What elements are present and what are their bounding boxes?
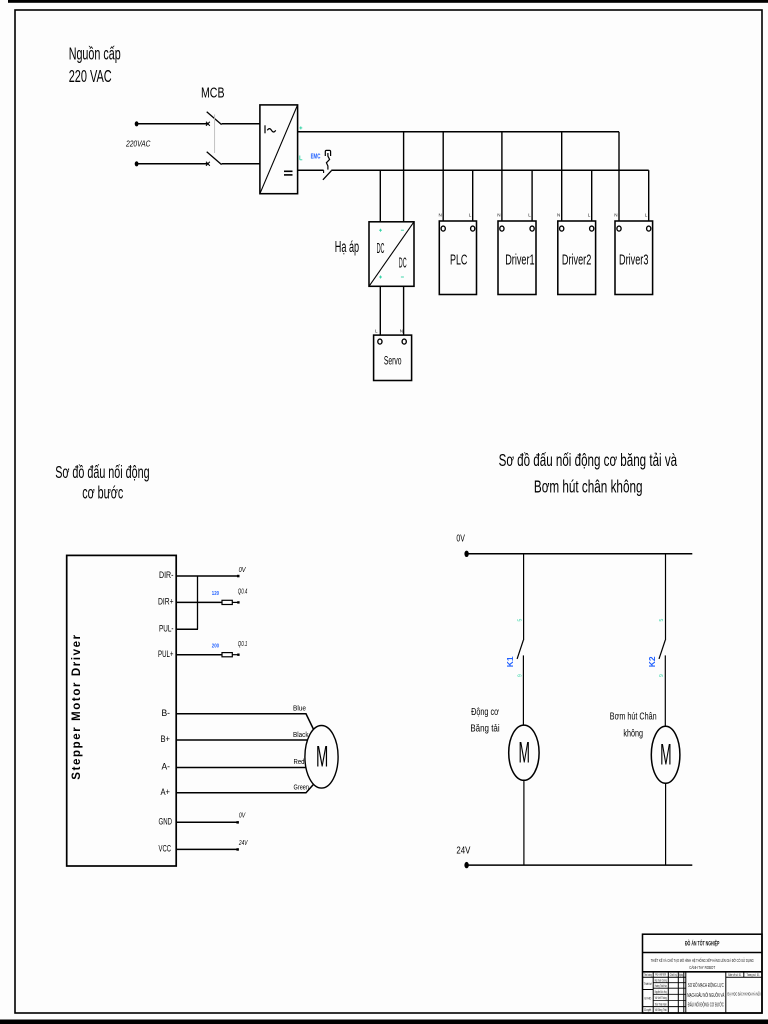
wire DIR- xyxy=(176,575,238,577)
wire B- xyxy=(176,714,313,730)
Driver2 terminal L xyxy=(590,226,594,231)
wire R2 out xyxy=(232,654,237,656)
svg-text:Driver2: Driver2 xyxy=(562,252,591,268)
K1 wire upper xyxy=(523,554,525,640)
wire B+ xyxy=(176,739,307,741)
wire R1 out xyxy=(232,601,237,603)
svg-text:N: N xyxy=(439,213,442,218)
svg-text:PUL+: PUL+ xyxy=(158,649,174,659)
MCB pole2 cross xyxy=(206,162,210,166)
svg-text:M: M xyxy=(518,735,529,768)
DC-DC converter xyxy=(369,222,414,286)
terminal dot L1 xyxy=(135,121,139,126)
svg-text:Sơ đồ đấu nối động: Sơ đồ đấu nối động xyxy=(55,462,149,482)
svg-text:L: L xyxy=(528,213,531,218)
svg-text:5: 5 xyxy=(517,619,523,622)
svg-text:DC: DC xyxy=(399,255,407,272)
wire VCC xyxy=(176,848,237,850)
wire drop Driver2 N xyxy=(561,132,563,227)
end dot 0V xyxy=(237,575,240,578)
end dot Q0.1 xyxy=(237,654,239,656)
wire dcdc to servo left xyxy=(379,286,381,336)
PLC box xyxy=(439,221,476,295)
24V rail terminal xyxy=(464,862,468,868)
svg-text:Ngày: Ngày xyxy=(679,973,683,977)
svg-text:Stepper Motor Driver: Stepper Motor Driver xyxy=(71,633,83,779)
svg-text:Red: Red xyxy=(294,759,305,766)
Driver3 terminal N xyxy=(617,226,621,231)
servo terminal right xyxy=(402,339,406,344)
svg-text:N: N xyxy=(400,329,403,334)
wire MCB pole1 to converter xyxy=(222,123,260,125)
PLC terminal L xyxy=(471,226,475,231)
24V rail xyxy=(466,864,692,866)
svg-text:Green: Green xyxy=(294,785,310,792)
vacuum pump motor M3 xyxy=(651,726,680,783)
svg-text:B+: B+ xyxy=(161,734,171,744)
Driver3 box xyxy=(615,221,653,295)
svg-text:Hạ áp: Hạ áp xyxy=(335,239,359,256)
svg-text:Trần Thiên Nam: Trần Thiên Nam xyxy=(655,1002,667,1006)
lower bus wire from converter xyxy=(298,169,324,171)
Stepper Motor Driver box xyxy=(67,555,177,866)
teal marks dcdc xyxy=(379,229,404,279)
svg-text:220 VAC: 220 VAC xyxy=(69,66,112,86)
label Bom hut Chan khong xyxy=(610,711,657,740)
wire M3 to 24V rail xyxy=(665,783,667,865)
wire A- xyxy=(176,767,305,769)
svg-text:5: 5 xyxy=(659,619,665,622)
K2 blade xyxy=(659,640,665,659)
terminal dot L2 xyxy=(135,161,139,166)
end dot GND xyxy=(236,821,239,824)
svg-text:ĐẤU NỐI ĐỘNG CƠ BƯỚC: ĐẤU NỐI ĐỘNG CƠ BƯỚC xyxy=(688,1001,724,1008)
teal plus mark output xyxy=(299,126,302,129)
svg-text:B-: B- xyxy=(162,708,171,718)
svg-text:Bơm hút Chân: Bơm hút Chân xyxy=(610,711,657,723)
svg-text:Tên hàng: Tên hàng xyxy=(644,973,652,977)
wire drop PLC N xyxy=(442,132,444,227)
wire PUL+ xyxy=(176,654,222,656)
end dot VCC xyxy=(236,848,239,851)
label: Nguon cap 220 VAC xyxy=(69,44,121,86)
resistor R2 xyxy=(222,653,232,657)
title block xyxy=(643,934,763,1013)
svg-text:Blue: Blue xyxy=(293,706,306,713)
svg-text:0V: 0V xyxy=(456,533,465,545)
MCB pole2 blade xyxy=(207,152,222,165)
DC symbol == xyxy=(284,171,293,175)
K2 wire upper xyxy=(665,554,667,640)
K1 wire lower xyxy=(522,655,524,725)
section title left xyxy=(55,462,149,502)
MCB linkage xyxy=(214,115,216,154)
svg-text:không: không xyxy=(623,728,643,740)
svg-text:K1: K1 xyxy=(505,656,515,667)
svg-text:DC: DC xyxy=(377,240,385,257)
svg-text:ĐẠI HỌC BÁCH KHOA HÀ NỘI: ĐẠI HỌC BÁCH KHOA HÀ NỘI xyxy=(728,990,761,996)
resistor R1 xyxy=(222,600,232,604)
bottom black bar xyxy=(0,1020,768,1024)
svg-text:N: N xyxy=(614,213,617,218)
svg-text:EMC: EMC xyxy=(311,154,321,161)
svg-text:Driver1: Driver1 xyxy=(505,252,534,268)
svg-text:L: L xyxy=(375,329,378,334)
wire M2 to 24V rail xyxy=(523,780,525,865)
svg-text:M: M xyxy=(660,737,671,770)
K2 wire lower xyxy=(664,655,666,726)
wire drop PLC L xyxy=(472,170,474,226)
svg-text:Bơm hút chân không: Bơm hút chân không xyxy=(534,477,643,497)
svg-text:Vũ Đăng Thái: Vũ Đăng Thái xyxy=(655,1008,667,1012)
svg-text:MẠCH ĐẤU NỐI NGUỒN VÀ: MẠCH ĐẤU NỐI NGUỒN VÀ xyxy=(687,992,724,999)
svg-text:Black: Black xyxy=(293,732,309,739)
svg-text:0V: 0V xyxy=(239,813,246,820)
svg-text:Servo: Servo xyxy=(384,354,402,368)
svg-text:MCB: MCB xyxy=(201,86,225,102)
svg-text:CÁNH TAY ROBOT: CÁNH TAY ROBOT xyxy=(689,964,715,971)
svg-text:N: N xyxy=(557,213,560,218)
svg-text:cơ bước: cơ bước xyxy=(82,482,123,502)
svg-text:GVHD: GVHD xyxy=(644,997,651,1001)
0V rail terminal xyxy=(464,551,468,557)
svg-text:9: 9 xyxy=(517,674,523,677)
wire drop Driver2 L xyxy=(591,170,593,226)
svg-text:A+: A+ xyxy=(161,787,171,797)
svg-text:SƠ ĐỒ MẠCH ĐỘNG LỰC: SƠ ĐỒ MẠCH ĐỘNG LỰC xyxy=(688,982,724,989)
Driver1 terminal L xyxy=(530,226,534,231)
svg-text:24V: 24V xyxy=(238,840,248,847)
svg-text:Động cơ: Động cơ xyxy=(471,706,499,718)
conveyor motor M2 xyxy=(509,725,539,780)
Driver1 box xyxy=(498,221,536,295)
svg-text:L: L xyxy=(645,213,648,218)
svg-text:A-: A- xyxy=(162,762,171,772)
wire drop dcdc left xyxy=(379,170,381,222)
servo terminal left xyxy=(378,339,382,344)
top black bar xyxy=(8,0,768,3)
Servo box xyxy=(374,335,412,380)
svg-text:Chữ ký: Chữ ký xyxy=(670,973,677,977)
Driver1 terminal N xyxy=(500,226,504,231)
svg-text:Q0.4: Q0.4 xyxy=(238,589,248,596)
lower bus wire after EMC xyxy=(331,169,648,171)
wire MCB pole2 to converter xyxy=(222,163,260,165)
svg-text:PUL-: PUL- xyxy=(159,623,174,633)
svg-text:Thiết kế: Thiết kế xyxy=(644,982,652,986)
top bus wire xyxy=(298,131,619,133)
end dot Q0.4 xyxy=(237,601,239,603)
Driver2 box xyxy=(558,221,596,295)
svg-text:PLC: PLC xyxy=(450,252,467,268)
svg-text:N: N xyxy=(497,213,500,218)
svg-text:Bản vẽ số: 01: Bản vẽ số: 01 xyxy=(728,973,741,977)
section title right xyxy=(499,450,678,497)
EMC release symbol xyxy=(325,150,330,169)
MCB pole1 blade xyxy=(207,112,222,125)
wire drop Driver3 L xyxy=(648,170,650,226)
wire L1 to MCB xyxy=(138,123,208,125)
wire dcdc to servo right xyxy=(403,286,405,336)
svg-text:Hoàng Thái Hòa: Hoàng Thái Hòa xyxy=(655,984,667,988)
svg-text:Họ và tên: Họ và tên xyxy=(655,972,666,976)
wire PUL- xyxy=(176,628,198,630)
svg-text:Q0.1: Q0.1 xyxy=(238,641,248,648)
svg-text:Sơ đồ đấu nối động cơ băng tải: Sơ đồ đấu nối động cơ băng tải và xyxy=(499,450,678,470)
AC-DC converter U1 xyxy=(260,105,298,194)
EMC switch tick xyxy=(323,170,325,173)
Driver2 terminal N xyxy=(560,226,564,231)
svg-text:0V: 0V xyxy=(239,567,247,574)
EMC switch blade xyxy=(323,171,332,180)
title block text xyxy=(644,938,761,1012)
PLC terminal N xyxy=(441,226,445,231)
svg-text:120: 120 xyxy=(212,591,219,597)
label Dong co Bang tai xyxy=(470,706,499,735)
svg-text:DIR+: DIR+ xyxy=(158,597,174,607)
svg-text:Vũ Viết Thông: Vũ Viết Thông xyxy=(655,996,667,1000)
svg-text:200: 200 xyxy=(212,643,219,649)
svg-text:220VAC: 220VAC xyxy=(125,139,151,148)
svg-text:9: 9 xyxy=(659,674,665,677)
svg-text:Băng tải: Băng tải xyxy=(470,723,499,735)
K1 blade xyxy=(517,640,523,659)
svg-text:VCC: VCC xyxy=(159,844,172,854)
MCB pole1 cross xyxy=(206,122,210,126)
wire A+ xyxy=(176,784,313,792)
svg-text:Duyệt: Duyệt xyxy=(644,1008,651,1012)
svg-text:M: M xyxy=(316,740,328,773)
svg-text:Driver3: Driver3 xyxy=(619,252,648,268)
stepper motor M1 xyxy=(305,726,338,789)
svg-text:GND: GND xyxy=(159,817,173,827)
junction DIR- PUL- xyxy=(197,576,199,629)
wire L2 to MCB xyxy=(138,163,208,165)
svg-text:Trang số: 01: Trang số: 01 xyxy=(747,973,760,977)
svg-text:Nguồn cấp: Nguồn cấp xyxy=(69,44,121,64)
wire drop Driver1 L xyxy=(531,170,533,226)
wire drop Driver1 N xyxy=(501,132,503,227)
svg-text:24V: 24V xyxy=(456,845,470,857)
AC symbol 1~ xyxy=(265,125,276,133)
0V rail xyxy=(466,553,692,555)
teal L mark output xyxy=(300,156,303,160)
wire drop Driver3 N xyxy=(618,132,620,227)
wire DIR+ xyxy=(176,601,222,603)
svg-text:K2: K2 xyxy=(647,656,657,667)
svg-text:Nguyễn Đức Huy: Nguyễn Đức Huy xyxy=(655,989,667,994)
svg-text:L: L xyxy=(469,213,472,218)
svg-text:L: L xyxy=(588,213,591,218)
Driver3 terminal L xyxy=(647,226,651,231)
svg-text:Ngô Xuân Cương: Ngô Xuân Cương xyxy=(655,979,667,983)
svg-text:DIR-: DIR- xyxy=(159,570,174,580)
wire GND xyxy=(176,821,237,823)
wire drop dcdc right xyxy=(403,132,405,222)
